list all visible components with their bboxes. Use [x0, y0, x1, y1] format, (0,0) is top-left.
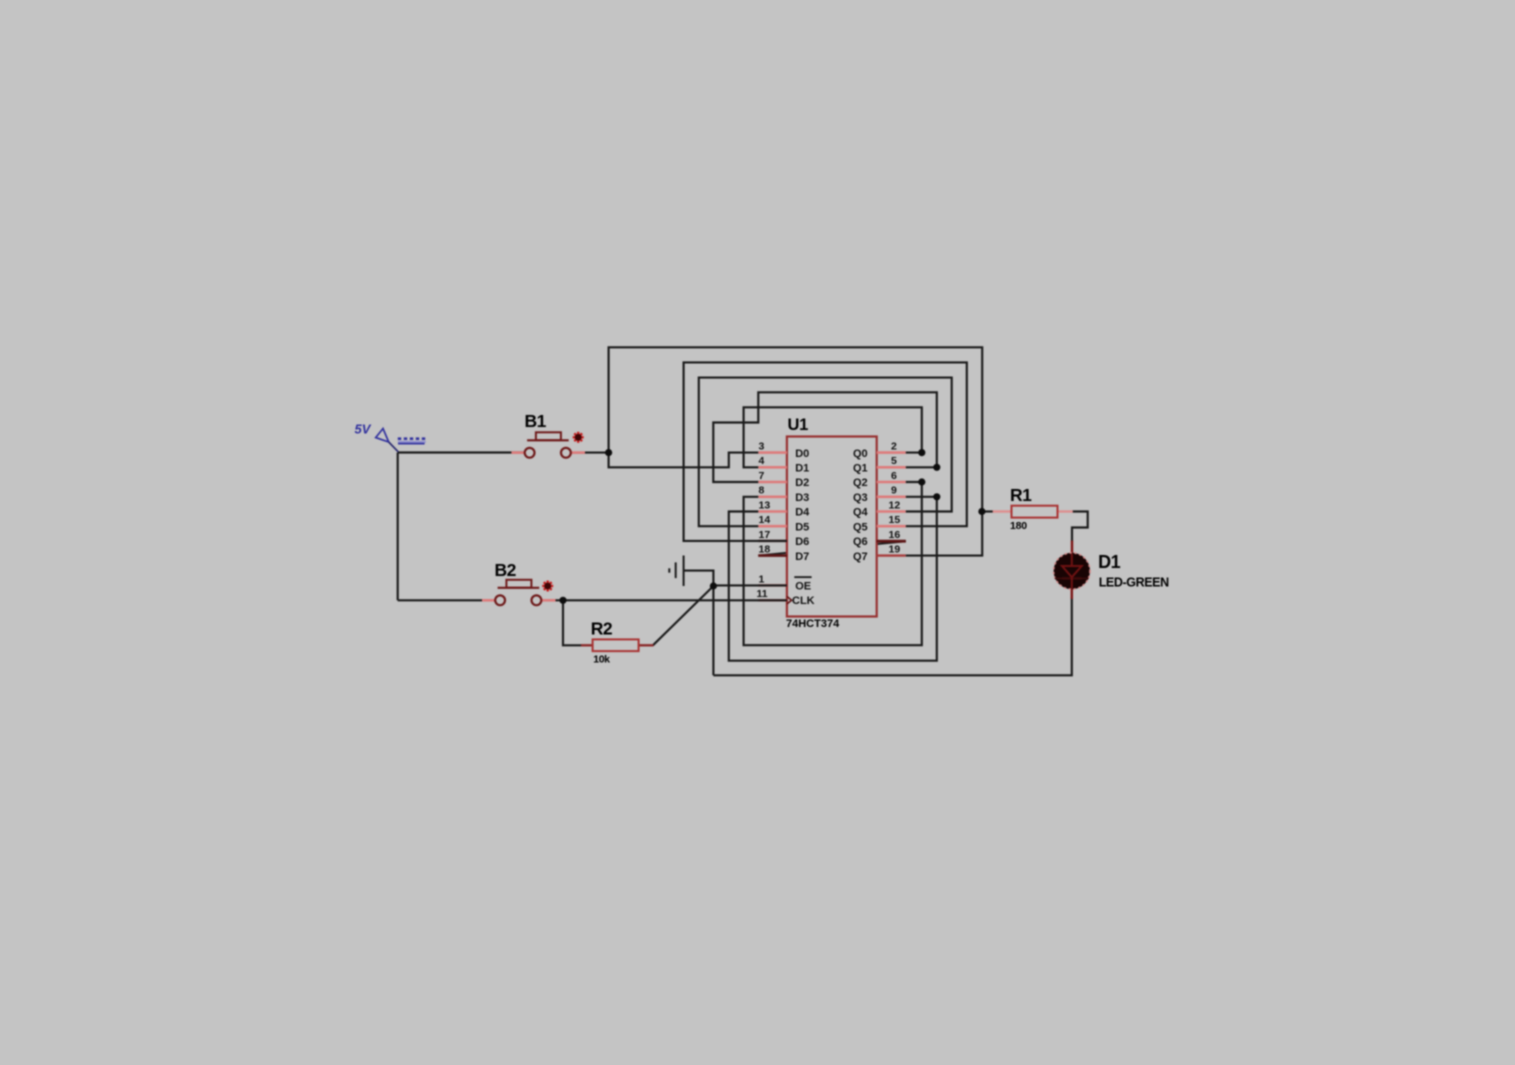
pin 2 Q0 stub: [877, 451, 906, 454]
pin 3 D0 stub: [758, 451, 787, 454]
svg-text:15: 15: [889, 514, 901, 526]
wire node A staircase to D0: [609, 453, 759, 468]
svg-text:Q5: Q5: [853, 521, 868, 533]
svg-text:180: 180: [1010, 520, 1027, 532]
svg-text:12: 12: [889, 499, 901, 511]
svg-text:D1: D1: [1098, 552, 1120, 572]
svg-text:19: 19: [889, 544, 901, 556]
wire 5V terminal to B1 left: [398, 451, 526, 453]
CLK input triangle: [787, 596, 792, 604]
svg-text:4: 4: [759, 455, 765, 467]
wire Q4 to D5 loop: [699, 378, 952, 527]
node C junction dot (OE/R2/ground/rail): [710, 582, 717, 589]
wire Q3 to D4 loop: [729, 497, 937, 661]
svg-text:B1: B1: [525, 411, 547, 431]
svg-text:U1: U1: [788, 416, 809, 434]
pin 16 Q6 stub: [877, 540, 906, 543]
pin 8 D3 stub: [758, 495, 787, 498]
pin 17 D6 stub: [758, 540, 787, 542]
svg-text:Q3: Q3: [853, 492, 868, 504]
svg-text:Q2: Q2: [853, 477, 868, 489]
svg-text:5V: 5V: [355, 422, 372, 437]
svg-text:D0: D0: [795, 448, 809, 460]
resistor R2: [581, 639, 653, 651]
svg-text:CLK: CLK: [792, 595, 815, 607]
wire node C to OE: [713, 584, 787, 586]
pin 5 Q1 stub: [877, 466, 906, 469]
wire Q1 to D2 loop: [713, 392, 937, 482]
svg-text:8: 8: [759, 485, 765, 497]
pin 19 Q7 stub: [877, 554, 906, 556]
OE overbar: [794, 576, 811, 578]
svg-text:5: 5: [891, 455, 897, 467]
svg-text:3: 3: [759, 441, 765, 453]
svg-text:7: 7: [759, 470, 765, 482]
wire Q2 to D3 loop: [744, 482, 922, 645]
svg-text:D5: D5: [795, 521, 809, 533]
wire B2 right to CLK: [542, 599, 787, 601]
svg-text:Q0: Q0: [853, 448, 868, 460]
pin 4 D1 stub: [758, 466, 787, 469]
svg-text:Q6: Q6: [853, 536, 868, 548]
pin 14 D5 stub: [758, 525, 787, 528]
svg-text:LED-GREEN: LED-GREEN: [1099, 576, 1169, 590]
svg-text:9: 9: [891, 485, 897, 497]
svg-text:16: 16: [889, 529, 901, 541]
svg-text:D1: D1: [795, 463, 809, 475]
pin 13 D4 stub: [758, 510, 787, 513]
pin 1 OE stub: [758, 584, 787, 586]
wire bottom rail to LED cathode: [713, 598, 1071, 675]
pin 15 Q5 stub: [877, 525, 906, 528]
svg-text:D3: D3: [795, 492, 809, 504]
svg-text:2: 2: [891, 441, 897, 453]
wire R1 right jog down to LED anode: [1072, 512, 1088, 542]
svg-text:D4: D4: [795, 507, 810, 519]
node A junction dot (B1/D0/loop): [605, 449, 612, 456]
pin 6 Q2 stub: [877, 481, 906, 484]
svg-text:D6: D6: [795, 536, 809, 548]
wire to B2 left: [398, 599, 496, 601]
pin 18 D7 stub: [758, 554, 787, 557]
op-amp/IC U1 body 74HCT374: [787, 437, 877, 617]
wire outer loop node A up over top to Q7: [609, 347, 983, 555]
power terminal 5V: [376, 429, 426, 452]
pin 7 D2 stub: [758, 481, 787, 484]
node junction dot Q0: [918, 449, 925, 456]
svg-text:10k: 10k: [593, 653, 610, 665]
svg-text:11: 11: [757, 588, 768, 600]
svg-text:74HCT374: 74HCT374: [786, 618, 840, 630]
pin 12 Q4 stub: [877, 510, 906, 513]
svg-text:B2: B2: [495, 560, 517, 580]
ground: [669, 556, 683, 587]
wire ground stem to node C: [684, 571, 714, 586]
svg-text:Q7: Q7: [853, 551, 868, 563]
wire left vertical 5V rail down: [397, 453, 399, 601]
node junction dot Q3: [933, 493, 940, 500]
DOTS: [559, 449, 985, 604]
node junction dot Q2: [918, 478, 925, 485]
svg-text:13: 13: [759, 499, 771, 511]
resistor R1: [993, 506, 1073, 518]
wire B1 right to node A: [571, 452, 609, 454]
node B junction dot (B2/CLK/R2): [559, 597, 566, 604]
pin 11 CLK stub: [758, 599, 787, 601]
svg-text:6: 6: [891, 470, 897, 482]
svg-text:R1: R1: [1010, 485, 1032, 505]
svg-text:D2: D2: [795, 477, 809, 489]
node junction dot Q1: [933, 464, 940, 471]
svg-text:17: 17: [759, 529, 771, 541]
node D junction dot (Q7/R1): [978, 508, 985, 515]
wire Q0 to D1 loop: [744, 407, 922, 467]
wire R2 right diagonal up to node C: [653, 586, 714, 645]
wire node C down to bottom rail: [712, 585, 714, 675]
svg-text:14: 14: [759, 514, 771, 526]
svg-text:D7: D7: [795, 551, 809, 563]
wire node D to R1 left: [982, 510, 993, 512]
svg-text:18: 18: [759, 544, 771, 556]
wire Q6 to D7 (diagonal, passes behind U1 body): [758, 541, 906, 555]
svg-text:OE: OE: [795, 581, 811, 593]
LED D1: [1054, 541, 1090, 599]
wire node B down to R2 left: [563, 600, 582, 645]
button B2: [482, 580, 556, 605]
svg-text:Q4: Q4: [853, 507, 869, 519]
svg-text:1: 1: [759, 573, 765, 585]
svg-text:R2: R2: [591, 618, 613, 638]
button B1: [511, 432, 585, 458]
wire Q5 to D6 loop: [684, 362, 967, 541]
pin 9 Q3 stub: [877, 495, 906, 498]
svg-text:Q1: Q1: [853, 463, 868, 475]
